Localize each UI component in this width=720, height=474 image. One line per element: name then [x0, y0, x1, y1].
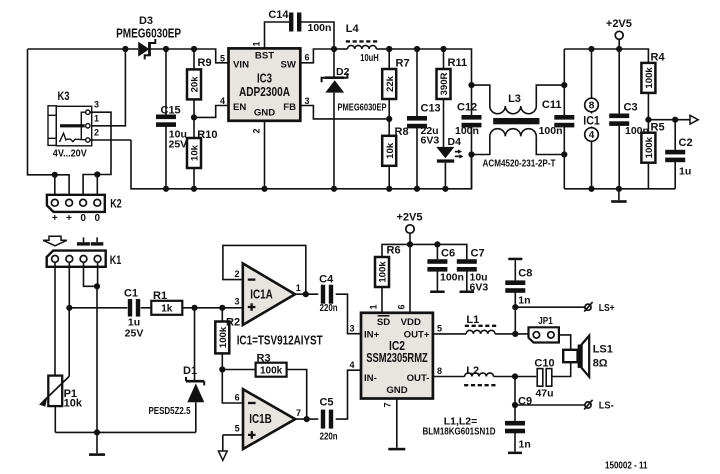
wire R1 to opamp [182, 307, 243, 309]
label IC2 OUTM [407, 373, 430, 384]
svg-text:4V...20V: 4V...20V [53, 147, 87, 159]
label C5 value [320, 431, 338, 443]
svg-text:+2V5: +2V5 [606, 18, 632, 30]
label drawing number [605, 460, 648, 472]
speaker LS1 [563, 336, 589, 377]
node LS- junction [512, 402, 518, 408]
svg-text:10k: 10k [64, 398, 83, 410]
wire K1 pin3 gnd stub [84, 262, 98, 286]
svg-text:GND: GND [254, 107, 275, 118]
svg-text:SW: SW [281, 60, 297, 71]
svg-text:5: 5 [220, 53, 225, 63]
pin 1 label K3 [94, 113, 99, 123]
node D3 anode junction [122, 46, 128, 52]
label C3 value [625, 125, 649, 137]
tvs diode D1 [186, 377, 204, 432]
capacitor C12 [462, 85, 482, 189]
wire K3 pin2 to gnd rail [90, 139, 131, 141]
label K3 range [53, 147, 87, 159]
op IC3 body [229, 48, 301, 120]
svg-text:C14: C14 [268, 9, 289, 21]
ground bottom left [89, 432, 105, 456]
label C14 value [308, 22, 332, 34]
label C12 value [455, 125, 479, 137]
svg-text:100k: 100k [218, 326, 229, 348]
pin 2 label IC1A [234, 269, 239, 279]
output arrow [690, 115, 698, 124]
inductor L1 [466, 330, 528, 334]
inductor L4 [334, 45, 389, 49]
label IC2 name [389, 339, 405, 353]
node K1 gnd junction [94, 283, 100, 289]
svg-text:C5: C5 [319, 396, 333, 408]
svg-text:10uH: 10uH [360, 52, 379, 64]
connector K3 body [48, 106, 92, 146]
wire +V input left loop [28, 49, 70, 199]
svg-text:1: 1 [369, 304, 379, 309]
label P1 [64, 388, 77, 400]
pin 4 label IC3 [220, 96, 225, 106]
pin 3 label IC3 [305, 96, 310, 106]
resistor R1 [151, 301, 182, 315]
svg-text:3: 3 [94, 100, 99, 110]
wire IC1A feedback [223, 245, 306, 294]
svg-text:R2: R2 [226, 317, 240, 329]
node rail gnd junction [616, 186, 622, 192]
label C5 [319, 396, 333, 408]
svg-text:3: 3 [234, 296, 239, 306]
wire top rail left [28, 48, 139, 50]
led D4 [436, 147, 463, 189]
svg-text:100n: 100n [455, 125, 479, 137]
node IC1A output junction [303, 291, 309, 297]
node gnd rail junction [94, 429, 100, 435]
pin 1 label IC2 [369, 304, 379, 309]
svg-text:L1: L1 [466, 314, 479, 326]
wire GND rail bottom left [55, 431, 196, 433]
svg-text:LS+: LS+ [599, 303, 615, 314]
core L2 dashes [464, 384, 497, 386]
label IC3 SW [281, 60, 297, 71]
label C2 [679, 137, 693, 149]
op-amp IC1B [243, 389, 295, 449]
wire VDD pin [409, 244, 411, 312]
node C11 bottom junction [561, 151, 567, 157]
svg-text:R7: R7 [396, 58, 410, 70]
wire C10 to speaker [552, 362, 571, 376]
svg-text:25V: 25V [125, 328, 144, 340]
label R2 [226, 317, 240, 329]
node C6 junction [434, 241, 440, 247]
node R9 top junction [191, 46, 197, 52]
connector K2 body [47, 195, 105, 212]
resistor R9 [187, 49, 201, 117]
svg-text:4: 4 [589, 130, 595, 141]
op-amp IC1A [243, 263, 295, 325]
wire K1 pin2 to signal [68, 262, 70, 307]
diode D2 [322, 49, 348, 189]
pin 7 label IC2 [383, 402, 393, 407]
label C7 value [470, 272, 489, 294]
wire GND rail right section [564, 188, 675, 190]
node C12 top junction [468, 82, 474, 88]
svg-text:5: 5 [437, 323, 442, 333]
label R10 [197, 129, 217, 141]
pin 8 circle IC1 [585, 98, 599, 112]
svg-text:K2: K2 [110, 197, 122, 211]
terminal LS- [584, 400, 592, 410]
label IC3 FB [283, 102, 296, 113]
pin 4 circle IC1 [585, 128, 599, 142]
label C9 [518, 395, 532, 407]
capacitor C1 [128, 299, 140, 317]
node K2 pin4 junction [94, 171, 100, 199]
label IC3 BST [255, 51, 274, 62]
potentiometer P1 [39, 308, 69, 433]
wire C14 to SW node [300, 22, 334, 49]
ground arrow IC1B [218, 451, 227, 460]
pin 5 label IC3 [220, 53, 225, 63]
node VDD junction [407, 241, 413, 247]
label IC3 EN [233, 102, 246, 113]
ground right section [611, 189, 627, 203]
wire R3 feedback net [222, 369, 255, 371]
pin 2 label K3 [94, 127, 99, 137]
node OUT- junction [512, 373, 518, 379]
wire signal to C1 [69, 307, 127, 309]
svg-text:6: 6 [305, 52, 310, 62]
label D1 value [149, 405, 191, 417]
pin 1 label IC1A [296, 283, 301, 293]
svg-text:SSM2305RMZ: SSM2305RMZ [366, 351, 428, 365]
wire C5 to IC2 IN- [336, 370, 361, 419]
label C10 [534, 357, 554, 369]
svg-text:4: 4 [349, 360, 354, 370]
node LS+ junction [512, 304, 518, 310]
svg-text:1n: 1n [518, 294, 530, 306]
capacitor C8 [505, 258, 525, 334]
label R8 [395, 126, 409, 138]
label LS+ [599, 303, 615, 314]
svg-text:3: 3 [349, 323, 354, 333]
svg-text:R9: R9 [198, 57, 212, 69]
wire D3 cathode to VIN corner [150, 49, 229, 63]
label D4 [448, 136, 462, 148]
svg-text:L3: L3 [508, 93, 521, 105]
label IC1B [249, 412, 272, 426]
node IC1 supply top [588, 46, 594, 52]
label LS1 value [593, 358, 608, 370]
wire output node [648, 119, 689, 121]
svg-text:20k: 20k [190, 76, 201, 93]
svg-text:100n: 100n [539, 125, 563, 137]
label D2 [336, 66, 350, 78]
node C2 junction [672, 117, 678, 123]
label JP1 [538, 315, 553, 327]
node rail R10 [191, 186, 197, 192]
capacitor C11 [554, 49, 574, 189]
wire K1 pin4 to gnd rail [96, 262, 99, 432]
svg-text:5: 5 [235, 424, 240, 434]
svg-text:1: 1 [296, 283, 301, 293]
node +2V5 rail junction [616, 46, 622, 52]
svg-text:1: 1 [252, 41, 262, 46]
svg-text:6: 6 [235, 393, 240, 403]
wire GND rail left section [131, 140, 472, 189]
svg-text:IC1=TSV912AIYST: IC1=TSV912AIYST [237, 334, 323, 348]
label IC3 VIN [233, 60, 249, 71]
svg-text:C8: C8 [518, 267, 532, 279]
svg-text:R1: R1 [153, 290, 167, 302]
label IC1A [250, 287, 273, 301]
label L3 part [483, 157, 556, 169]
node L4-R7 junction [386, 46, 392, 52]
svg-text:BLM18KG601SN1D: BLM18KG601SN1D [423, 426, 496, 438]
wire C4 to IC2 IN+ [336, 294, 361, 334]
label D1 [183, 365, 197, 377]
op IC2 body [361, 313, 433, 399]
resistor R5 [641, 120, 655, 189]
svg-text:D3: D3 [139, 15, 153, 27]
pin 6 label IC3 [305, 52, 310, 62]
jumper JP1 [529, 327, 559, 342]
svg-text:IC1: IC1 [583, 113, 600, 127]
node R4-R5 junction [645, 117, 651, 123]
wire FB net [300, 106, 389, 119]
label C1 value [125, 316, 144, 339]
svg-text:100n: 100n [308, 22, 332, 34]
resistor R4 [641, 63, 655, 120]
label K2 polarity [52, 213, 101, 224]
choke L3 core [493, 118, 539, 124]
svg-text:L2: L2 [466, 365, 479, 377]
node C11 top junction [561, 82, 567, 88]
label K1 [110, 253, 122, 267]
svg-text:R11: R11 [448, 57, 468, 69]
svg-text:1n: 1n [519, 438, 531, 450]
label IC3 name [257, 72, 272, 86]
label R3 [257, 352, 271, 364]
svg-text:IC3: IC3 [257, 72, 272, 86]
pin 4 label IC2 [349, 360, 354, 370]
node R11 top junction [440, 46, 446, 52]
wire IC1B minus input [222, 370, 243, 404]
pin 6 label IC1B [235, 393, 240, 403]
svg-text:150002 - 11: 150002 - 11 [605, 460, 648, 472]
svg-text:2: 2 [234, 269, 239, 279]
svg-text:BST: BST [255, 51, 274, 62]
label IC2 VDD [401, 317, 421, 328]
svg-text:6: 6 [397, 304, 407, 309]
svg-text:EN: EN [233, 102, 246, 113]
svg-text:1u: 1u [128, 316, 140, 328]
core L1 dashes [465, 325, 497, 327]
resistor R6 [375, 257, 389, 313]
pin 3 label IC1A [234, 296, 239, 306]
wire K1 pin1 to P1 [54, 262, 56, 375]
svg-text:2: 2 [252, 128, 262, 133]
label C12 [457, 102, 477, 114]
wire R2 [215, 308, 229, 370]
pin 7 label IC1B [296, 408, 301, 418]
label L4 value [360, 52, 379, 64]
label C8 [518, 267, 532, 279]
resistor R7 [382, 49, 396, 119]
power +2V5 top [606, 18, 632, 49]
label C15 [161, 105, 181, 117]
svg-text:IC1A: IC1A [250, 287, 273, 301]
label K3 [58, 89, 70, 103]
svg-text:10k: 10k [385, 142, 396, 159]
wire LS+ line [515, 306, 585, 308]
svg-text:R10: R10 [197, 129, 217, 141]
label IC2 GND [386, 385, 407, 396]
label R6 [387, 245, 401, 257]
label C13 [421, 102, 441, 114]
svg-text:100n: 100n [440, 272, 464, 284]
label R4 [651, 51, 666, 63]
core L4 dashes [346, 40, 379, 42]
label C4 [319, 274, 334, 286]
svg-text:100k: 100k [260, 365, 283, 376]
pin 3 label IC2 [349, 323, 354, 333]
label C9 value [519, 438, 531, 450]
label R7 [396, 58, 410, 70]
svg-text:C1: C1 [124, 288, 138, 300]
wire VDD rail [382, 244, 467, 259]
label R5 [651, 121, 665, 133]
label L1 [466, 314, 479, 326]
wire SW pin [300, 49, 334, 63]
svg-text:8: 8 [437, 366, 442, 376]
label R9 [198, 57, 212, 69]
label C4 value [320, 302, 338, 314]
wire top rail right section [564, 49, 648, 63]
label C3 [624, 101, 638, 113]
svg-text:D1: D1 [183, 365, 197, 377]
node rail R8 [386, 186, 392, 192]
label P1 value [64, 398, 83, 410]
svg-text:+: + [52, 213, 58, 224]
power +2V5 bottom [397, 212, 423, 245]
wire JP1 to speaker [559, 335, 571, 350]
label C11 value [539, 125, 563, 137]
wire K3 pin3 switch net [83, 112, 111, 199]
label C6 [441, 248, 455, 260]
label D3 value PMEG6030EP [116, 27, 181, 41]
svg-text:PMEG6030EP: PMEG6030EP [338, 101, 387, 113]
svg-text:C9: C9 [518, 395, 532, 407]
svg-text:220n: 220n [320, 431, 338, 443]
wire IC3 GND pin [264, 121, 266, 189]
label IC2 OUTP [404, 330, 430, 341]
choke L3 top winding [472, 85, 565, 114]
svg-text:OUT+: OUT+ [404, 330, 430, 341]
label C14 [268, 9, 289, 21]
node rail C15 [163, 186, 169, 192]
label IC2 SD [377, 316, 390, 328]
svg-text:ACM4520-231-2P-T: ACM4520-231-2P-T [483, 157, 556, 169]
svg-text:6V3: 6V3 [470, 281, 489, 293]
svg-text:JP1: JP1 [538, 315, 553, 327]
svg-text:0: 0 [95, 213, 101, 224]
label L3 [508, 93, 521, 105]
label K2 [110, 197, 122, 211]
svg-text:L4: L4 [346, 23, 360, 35]
ground IC2 pin7 [388, 399, 405, 451]
node rail D2 [331, 186, 337, 192]
arrow input symbol [43, 236, 67, 246]
capacitor C3 [609, 49, 629, 189]
svg-text:C12: C12 [457, 102, 477, 114]
diode D3 [138, 39, 155, 59]
svg-text:VDD: VDD [401, 317, 421, 328]
node OUT+ junction [512, 331, 518, 337]
svg-text:390R: 390R [439, 72, 450, 95]
label L1 L2 part [423, 426, 496, 438]
wire K3 pin1 to rail [90, 49, 126, 126]
terminal LS+ [584, 302, 592, 312]
svg-text:7: 7 [383, 402, 393, 407]
label C1 [124, 288, 138, 300]
svg-text:VIN: VIN [233, 60, 249, 71]
svg-text:ADP2300A: ADP2300A [239, 85, 290, 99]
svg-text:8: 8 [589, 101, 595, 112]
svg-text:IN-: IN- [364, 373, 377, 384]
label C10 value [535, 387, 553, 399]
capacitor C10 [537, 369, 552, 387]
svg-text:FB: FB [283, 102, 296, 113]
svg-text:1k: 1k [161, 304, 173, 315]
svg-text:C4: C4 [319, 274, 334, 286]
wire LS- line [515, 404, 585, 406]
pin 8 label IC2 [437, 366, 442, 376]
svg-text:K3: K3 [58, 89, 70, 103]
svg-text:10k: 10k [190, 144, 201, 161]
label LS- [599, 401, 614, 412]
svg-text:R5: R5 [651, 121, 665, 133]
label R11 [448, 57, 468, 69]
node rail IC3 GND [261, 186, 267, 192]
wire IC1A output [295, 293, 318, 295]
svg-text:C6: C6 [441, 248, 455, 260]
wire L4 junction to C12 column [389, 49, 471, 85]
label C7 [471, 248, 485, 260]
svg-text:100k: 100k [644, 136, 655, 158]
svg-text:GND: GND [386, 385, 407, 396]
svg-text:PESD5Z2.5: PESD5Z2.5 [149, 405, 191, 417]
svg-text:D2: D2 [336, 66, 350, 78]
wire R3 to output [287, 370, 307, 420]
wire IC1 supply column [591, 49, 593, 189]
capacitor C14 [289, 13, 301, 32]
capacitor C7 [457, 259, 477, 293]
capacitor C9 [505, 405, 525, 454]
svg-text:SD: SD [377, 317, 390, 328]
node SW junction [331, 46, 337, 52]
svg-text:47u: 47u [535, 387, 553, 399]
wire C1 to R1 [141, 307, 152, 309]
svg-text:100k: 100k [644, 67, 655, 89]
node R2 junction [219, 305, 225, 311]
node K2 pin1 junction [52, 172, 58, 200]
svg-text:PMEG6030EP: PMEG6030EP [116, 27, 181, 41]
capacitor C4 [321, 285, 333, 304]
label IC2 INP [364, 330, 380, 341]
capacitor C13 [407, 49, 427, 189]
wire IC1B plus input [223, 435, 243, 451]
svg-text:+: + [66, 213, 72, 224]
